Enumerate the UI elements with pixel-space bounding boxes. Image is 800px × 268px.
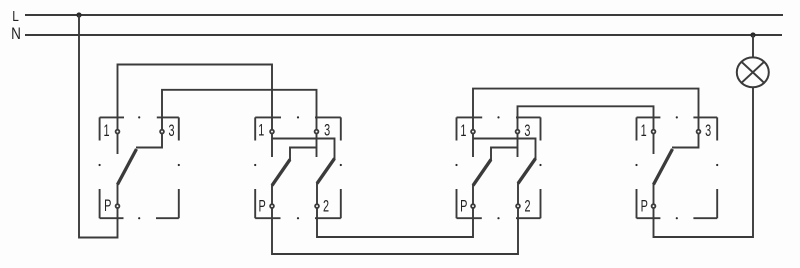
- svg-text:1: 1: [460, 121, 466, 140]
- svg-text:P: P: [258, 197, 265, 216]
- svg-text:N: N: [11, 25, 21, 44]
- switch S2 contact stub pin 2: [316, 183, 318, 206]
- junction on L line: [76, 12, 81, 17]
- switch S2 left lever: [272, 160, 290, 186]
- switch S3 box: [455, 116, 541, 219]
- terminal S2-3: [315, 130, 319, 134]
- lamp E1: [737, 57, 769, 87]
- switch S3 left lever: [473, 160, 491, 186]
- svg-text:2: 2: [524, 197, 530, 216]
- terminal S4-1: [652, 130, 656, 134]
- terminal S1-1: [116, 130, 120, 134]
- wire S4-P to lamp: [654, 87, 754, 237]
- wire S1-1 to S2-1: [118, 65, 273, 132]
- terminal S1-3: [160, 130, 164, 134]
- svg-text:2: 2: [323, 197, 329, 216]
- switch S3 contact stub pin 1: [472, 132, 474, 157]
- wire L line: [25, 14, 783, 16]
- switch S4 lever: [654, 149, 673, 185]
- switch S2 contact stub pin 3: [316, 132, 318, 157]
- switch S3 contact stub pin P: [472, 185, 474, 206]
- switch S2 bridge left: [290, 148, 317, 161]
- junction on N line: [750, 32, 755, 37]
- svg-text:L: L: [12, 8, 19, 24]
- svg-text:3: 3: [168, 122, 174, 141]
- switch S4 contact stub pin 1: [653, 132, 655, 154]
- svg-text:P: P: [460, 197, 467, 216]
- wire N line: [25, 34, 782, 36]
- wire S3-1 to S4-3: [473, 89, 699, 132]
- switch S4 contact stub pin 3: [672, 132, 699, 148]
- wire lamp to N: [752, 35, 754, 57]
- terminal S4-3: [697, 130, 701, 134]
- svg-text:P: P: [641, 197, 648, 216]
- switch S2 bridge right: [272, 139, 335, 160]
- switch S3 bridge right: [473, 139, 536, 160]
- switch S2 contact stub pin 1: [271, 132, 273, 157]
- wire S2-2 to S3-P: [317, 206, 473, 237]
- svg-text:P: P: [104, 197, 111, 216]
- wire S3-3 to S4-1: [518, 106, 654, 131]
- svg-text:1: 1: [258, 121, 264, 140]
- terminal S3-1: [471, 130, 475, 134]
- switch S3 contact stub pin 2: [517, 183, 519, 206]
- terminal S2-2: [315, 204, 319, 208]
- terminal S3-P: [471, 204, 475, 208]
- terminal S2-P: [270, 204, 274, 208]
- switch S2 box: [254, 116, 342, 219]
- switch S1 contact stub pin 3: [136, 132, 162, 148]
- switch S1 contact stub pin P: [117, 184, 119, 206]
- terminal S2-1: [270, 130, 274, 134]
- svg-text:3: 3: [324, 121, 330, 140]
- switch S4 contact stub pin P: [653, 184, 655, 206]
- svg-text:3: 3: [705, 122, 711, 141]
- wire S2-P to S3-2: [272, 206, 518, 254]
- switch S3 bridge left: [491, 148, 518, 161]
- wire S1-3 to S2-3: [162, 90, 317, 132]
- switch S2 right lever: [317, 159, 335, 184]
- terminal S3-2: [516, 204, 520, 208]
- switch S1 contact stub pin 1: [117, 132, 119, 154]
- switch S1 lever: [118, 149, 137, 185]
- switch S4 box: [635, 116, 718, 219]
- terminal S1-P: [116, 204, 120, 208]
- svg-text:1: 1: [103, 122, 109, 141]
- switch S3 right lever: [518, 159, 536, 184]
- svg-text:3: 3: [524, 121, 530, 140]
- terminal S3-3: [516, 130, 520, 134]
- svg-text:1: 1: [641, 122, 647, 141]
- switch S3 contact stub pin 3: [517, 132, 519, 157]
- switch S2 contact stub pin P: [271, 185, 273, 206]
- switch S1 box: [99, 116, 180, 219]
- wire L feed to S1 P: [79, 15, 118, 238]
- terminal S4-P: [652, 204, 656, 208]
